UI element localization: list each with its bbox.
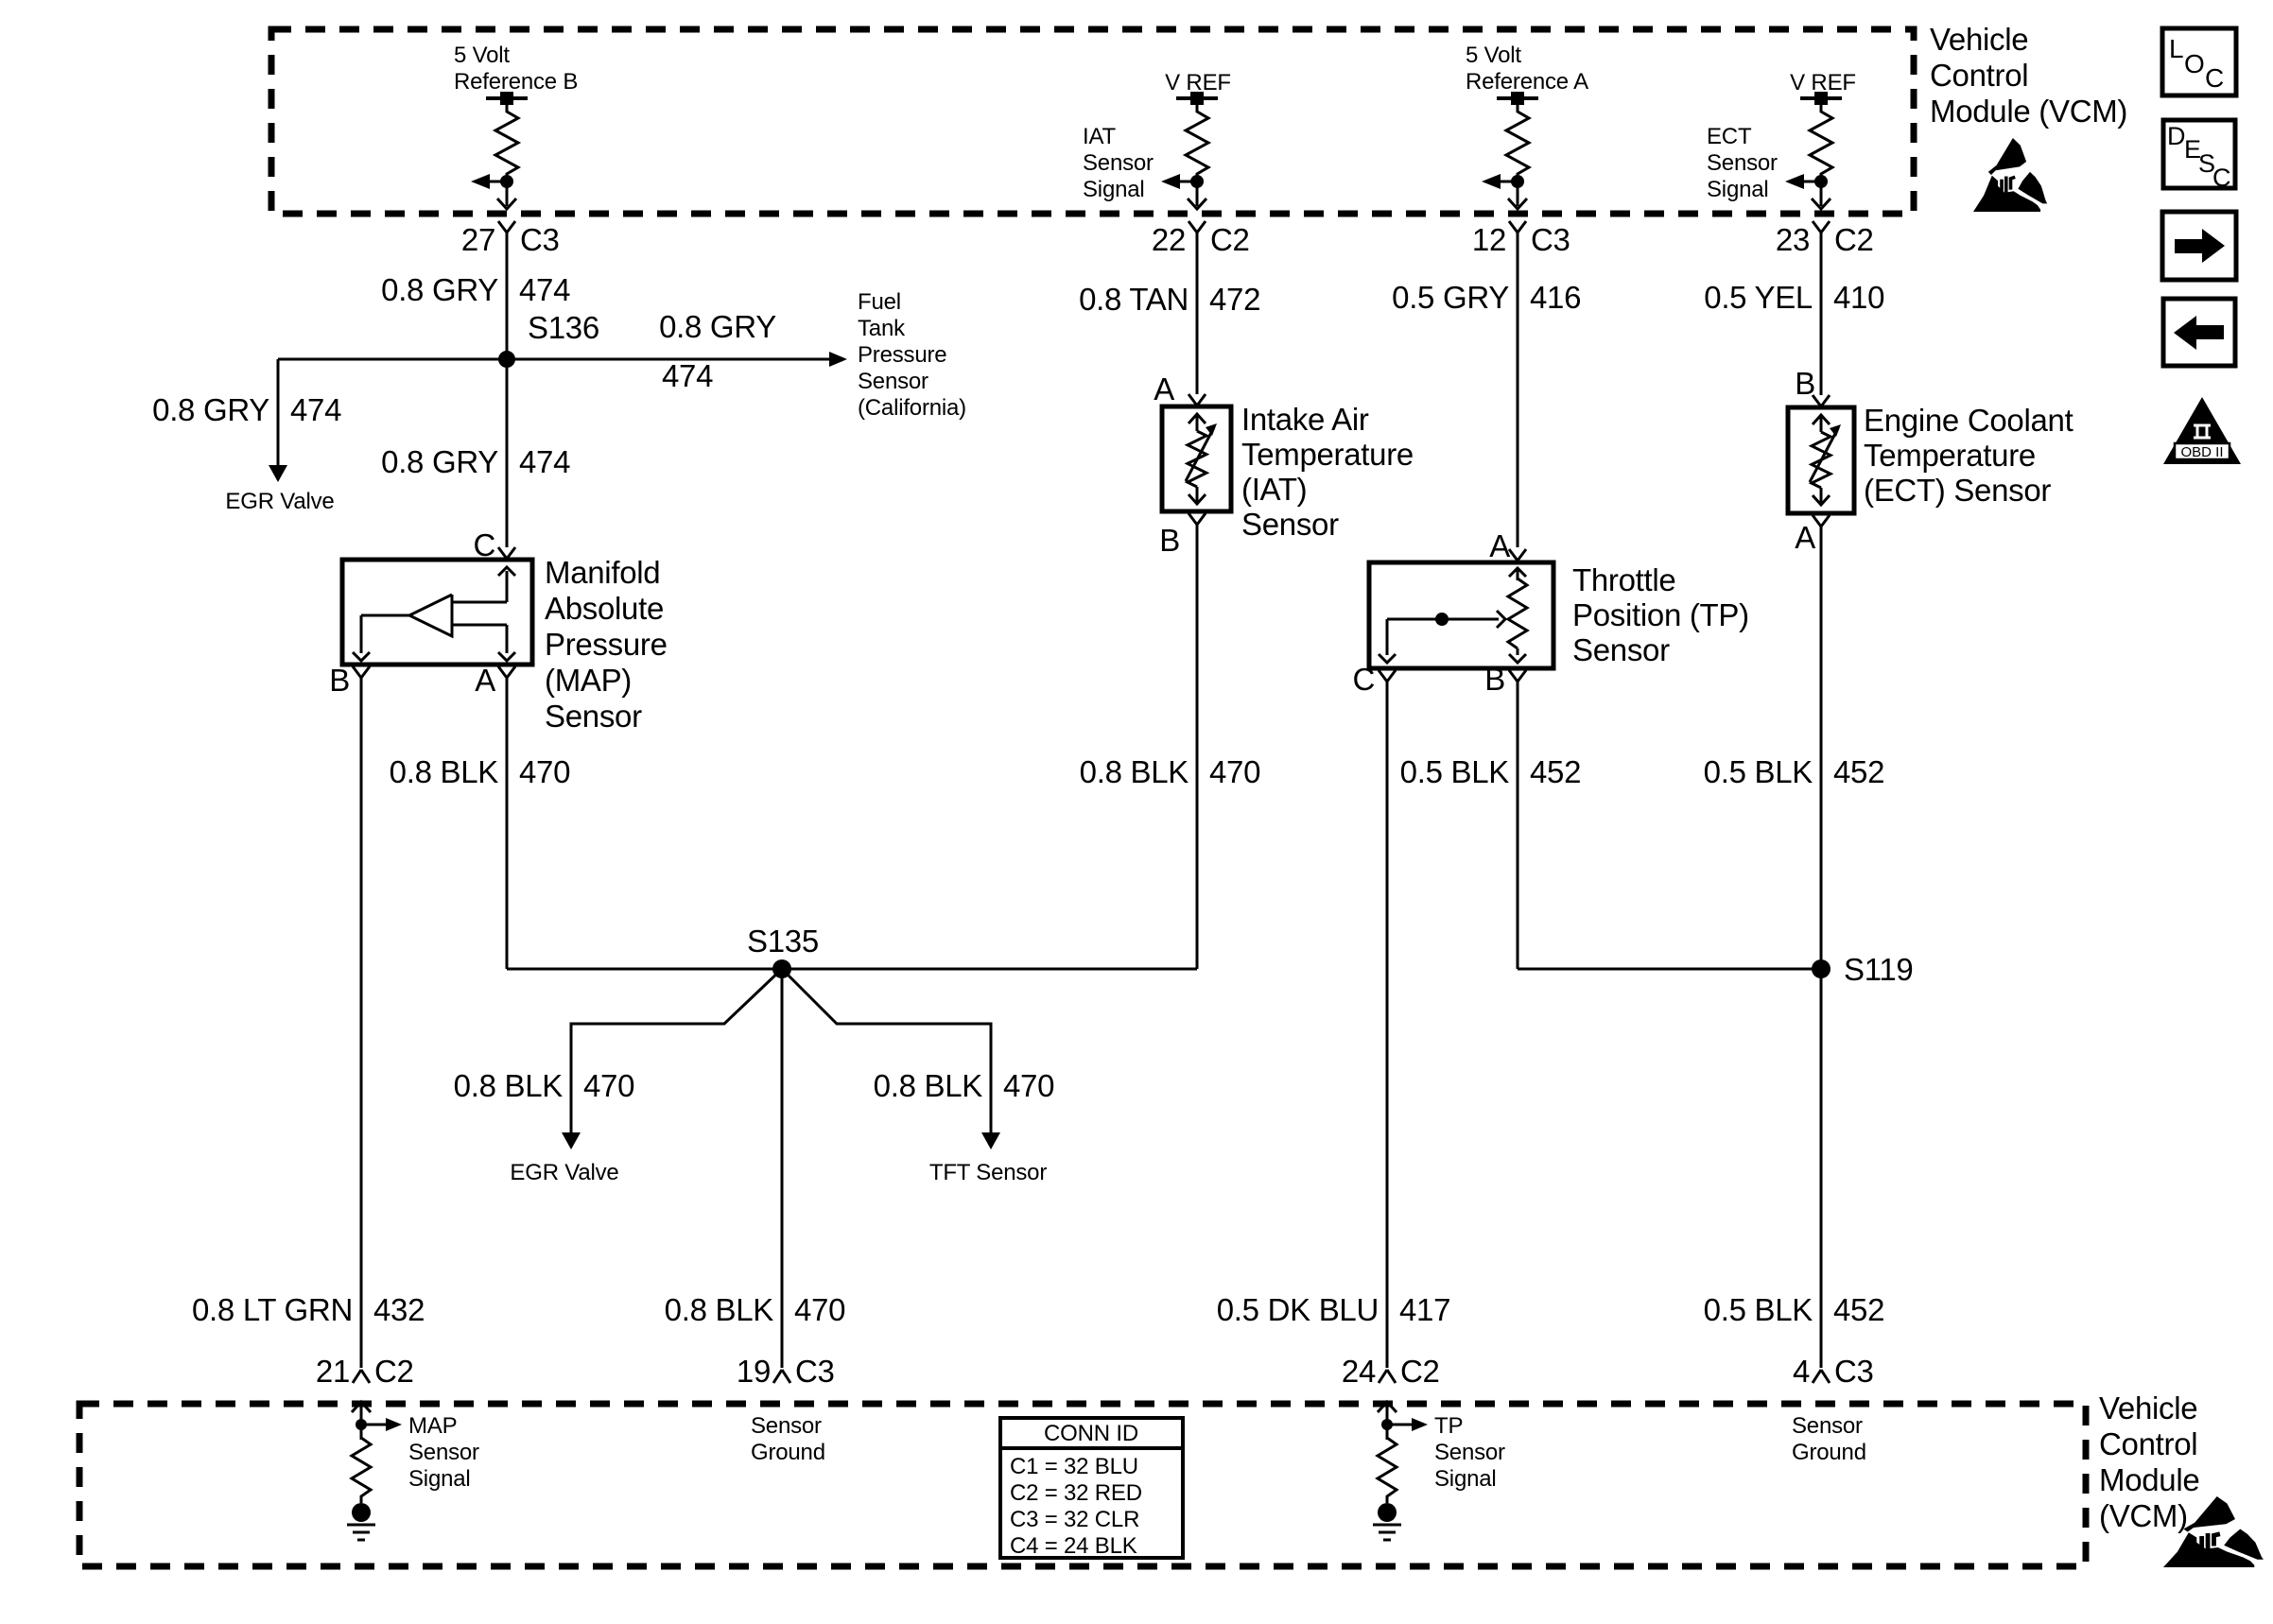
svg-text:L: L: [2169, 34, 2184, 63]
svg-text:Vehicle: Vehicle: [1930, 22, 2028, 57]
resistor IAT V REF pull-up: [1161, 92, 1218, 209]
wire S135 branch EGR: [571, 969, 782, 1132]
label 5 Volt Reference A: [1466, 43, 1588, 95]
CONN ID table: [1000, 1418, 1183, 1559]
label EGR Valve bottom: [510, 1160, 618, 1185]
connector pin 27 C3: [461, 221, 560, 257]
svg-text:V REF: V REF: [1790, 70, 1856, 95]
connector pin 24 C2: [1342, 1354, 1440, 1389]
svg-text:Fuel: Fuel: [858, 289, 901, 315]
svg-text:474: 474: [519, 272, 570, 307]
wire ECT down: [1820, 527, 1823, 1368]
label V REF ECT: [1790, 70, 1856, 95]
wire MAP B down: [360, 678, 363, 1368]
label Sensor Ground left: [751, 1413, 825, 1465]
svg-text:0.5 BLK: 0.5 BLK: [1704, 754, 1813, 789]
junction S136: [498, 310, 599, 368]
label TFT Sensor: [929, 1160, 1047, 1185]
ECT sensor box: [1788, 407, 1854, 513]
svg-text:C3 = 32 CLR: C3 = 32 CLR: [1010, 1507, 1139, 1532]
svg-text:0.8 BLK: 0.8 BLK: [874, 1068, 983, 1103]
label IAT Sensor Signal: [1083, 124, 1154, 202]
label wire 0.8 LT GRN 432: [192, 1292, 425, 1327]
svg-text:416: 416: [1530, 280, 1581, 315]
svg-text:0.5 YEL: 0.5 YEL: [1704, 280, 1813, 315]
svg-text:0.8 LT GRN: 0.8 LT GRN: [192, 1292, 353, 1327]
svg-text:417: 417: [1399, 1292, 1450, 1327]
svg-text:C3: C3: [1531, 222, 1570, 257]
label wire 0.8 BLK 470 (IAT B): [1080, 754, 1261, 789]
svg-text:Sensor: Sensor: [1792, 1413, 1863, 1439]
label wire 0.5 YEL 410: [1704, 280, 1884, 315]
wire TP C down: [1386, 682, 1389, 1368]
wire S136 horizontal left: [278, 358, 507, 361]
svg-text:C: C: [1352, 662, 1375, 697]
label Sensor Ground right: [1792, 1413, 1866, 1465]
connector MAP pin C: [473, 527, 515, 562]
junction S119: [1812, 952, 1913, 987]
resistor 5V Reference B pull-up: [471, 92, 528, 209]
svg-text:Sensor: Sensor: [1241, 507, 1339, 542]
svg-text:C: C: [473, 527, 495, 562]
svg-text:24: 24: [1342, 1354, 1376, 1389]
svg-text:C: C: [2205, 63, 2224, 93]
svg-text:Signal: Signal: [1434, 1466, 1497, 1492]
TP sensor box: [1369, 562, 1553, 668]
svg-text:S135: S135: [747, 924, 819, 959]
wire TP B down: [1517, 682, 1519, 969]
svg-text:0.8 BLK: 0.8 BLK: [454, 1068, 564, 1103]
label 5 Volt Reference B: [454, 43, 578, 95]
svg-text:TP: TP: [1434, 1413, 1463, 1439]
arrow to EGR Valve bottom: [562, 1132, 581, 1149]
connector ECT pin A: [1795, 515, 1830, 555]
svg-text:ECT: ECT: [1707, 124, 1752, 149]
svg-text:410: 410: [1833, 280, 1884, 315]
wire 416 vertical: [1517, 232, 1519, 547]
svg-text:23: 23: [1776, 222, 1810, 257]
label wire 0.8 GRY (fuel): [659, 309, 776, 344]
svg-text:Sensor: Sensor: [1434, 1440, 1505, 1465]
svg-text:(VCM): (VCM): [2099, 1498, 2188, 1533]
svg-text:Module (VCM): Module (VCM): [1930, 94, 2127, 129]
svg-text:C2: C2: [1210, 222, 1250, 257]
connector TP pin A: [1489, 528, 1526, 563]
svg-text:D: D: [2167, 122, 2186, 150]
connector pin 23 C2: [1776, 221, 1874, 257]
svg-text:Engine Coolant: Engine Coolant: [1864, 403, 2073, 438]
svg-text:0.8 BLK: 0.8 BLK: [1080, 754, 1189, 789]
connector IAT pin A: [1154, 371, 1206, 406]
svg-text:19: 19: [737, 1354, 771, 1389]
label ECT Sensor Signal: [1707, 124, 1778, 202]
VCM top label: [1930, 22, 2127, 129]
svg-text:Tank: Tank: [858, 316, 906, 341]
svg-text:B: B: [1795, 366, 1815, 401]
label TP sensor: [1572, 562, 1749, 667]
svg-text:Sensor: Sensor: [1083, 150, 1154, 176]
MAP sensor box: [342, 560, 532, 665]
arrow to TFT Sensor: [981, 1132, 1000, 1149]
label Fuel Tank Pressure Sensor: [858, 289, 966, 421]
svg-text:Absolute: Absolute: [545, 591, 664, 626]
connector pin 4 C3: [1793, 1354, 1874, 1389]
icon arrow right: [2162, 212, 2236, 280]
svg-text:Ground: Ground: [1792, 1440, 1866, 1465]
connector IAT pin B: [1159, 513, 1206, 558]
label wire 0.8 GRY 474 (pin 27): [381, 272, 570, 307]
svg-text:0.8 BLK: 0.8 BLK: [390, 754, 499, 789]
svg-text:5 Volt: 5 Volt: [454, 43, 510, 68]
wire 472 vertical: [1196, 232, 1199, 394]
MAP sensor signal input: [347, 1402, 402, 1540]
svg-text:IAT: IAT: [1083, 124, 1116, 149]
svg-text:Throttle: Throttle: [1572, 562, 1675, 597]
label IAT sensor: [1241, 402, 1414, 542]
label wire 0.8 BLK 470 (EGR): [454, 1068, 635, 1103]
svg-text:MAP: MAP: [408, 1413, 457, 1439]
svg-text:C1 = 32 BLU: C1 = 32 BLU: [1010, 1454, 1138, 1479]
ESD symbol top: [1973, 138, 2047, 212]
svg-text:C3: C3: [520, 222, 560, 257]
label wire 0.8 TAN 472: [1079, 282, 1260, 317]
label wire 0.5 DK BLU 417: [1217, 1292, 1450, 1327]
svg-text:C4 = 24 BLK: C4 = 24 BLK: [1010, 1533, 1137, 1559]
svg-text:OBD II: OBD II: [2180, 444, 2223, 460]
connector pin 22 C2: [1152, 221, 1250, 257]
label EGR Valve top: [225, 489, 334, 514]
connector TP pin C: [1352, 662, 1396, 697]
svg-text:B: B: [329, 663, 350, 698]
svg-text:Control: Control: [2099, 1426, 2197, 1461]
svg-text:Signal: Signal: [1707, 177, 1769, 202]
svg-text:470: 470: [1209, 754, 1260, 789]
svg-text:12: 12: [1472, 222, 1506, 257]
svg-text:Pressure: Pressure: [858, 342, 946, 368]
svg-text:0.5 BLK: 0.5 BLK: [1400, 754, 1510, 789]
label MAP Sensor Signal: [408, 1413, 479, 1492]
svg-text:Intake Air: Intake Air: [1241, 402, 1369, 437]
svg-text:A: A: [475, 663, 495, 698]
svg-text:Reference A: Reference A: [1466, 69, 1588, 95]
VCM bottom dashed box: [79, 1404, 2086, 1566]
svg-text:C2: C2: [1834, 222, 1874, 257]
svg-text:S136: S136: [528, 310, 599, 345]
svg-text:V REF: V REF: [1165, 70, 1231, 95]
svg-text:472: 472: [1209, 282, 1260, 317]
resistor ECT V REF pull-up: [1785, 92, 1842, 209]
wire IAT B to bus: [1196, 525, 1199, 969]
svg-text:C2 = 32 RED: C2 = 32 RED: [1010, 1480, 1142, 1506]
connector MAP pin B: [329, 663, 370, 698]
svg-text:CONN ID: CONN ID: [1044, 1421, 1138, 1446]
svg-text:21: 21: [316, 1354, 350, 1389]
svg-text:EGR Valve: EGR Valve: [225, 489, 334, 514]
wire S119 horizontal: [1518, 968, 1821, 971]
svg-text:Reference B: Reference B: [454, 69, 578, 95]
label ECT sensor: [1864, 403, 2073, 508]
svg-text:Control: Control: [1930, 58, 2028, 93]
svg-text:Sensor: Sensor: [545, 699, 642, 734]
label wire 0.5 GRY 416: [1392, 280, 1581, 315]
TP potentiometer: [1379, 568, 1527, 663]
svg-text:470: 470: [519, 754, 570, 789]
svg-text:432: 432: [373, 1292, 425, 1327]
svg-text:(California): (California): [858, 395, 966, 421]
label wire 0.8 BLK 470 (TFT): [874, 1068, 1055, 1103]
svg-text:0.8 GRY: 0.8 GRY: [381, 444, 498, 479]
VCM bottom label: [2099, 1391, 2199, 1533]
svg-text:A: A: [1154, 371, 1174, 406]
wire ground bus horizontal: [507, 968, 1197, 971]
svg-text:Module: Module: [2099, 1462, 2199, 1497]
svg-text:(MAP): (MAP): [545, 663, 632, 698]
svg-text:0.8 GRY: 0.8 GRY: [659, 309, 776, 344]
connector pin 12 C3: [1472, 221, 1570, 257]
label wire 0.8 GRY 474 (MAP C): [381, 444, 570, 479]
arrow to Fuel Tank Pressure Sensor: [829, 352, 847, 367]
svg-text:474: 474: [662, 358, 713, 393]
connector MAP pin A: [475, 663, 515, 698]
svg-text:O: O: [2184, 49, 2205, 78]
svg-text:0.5 DK BLU: 0.5 DK BLU: [1217, 1292, 1379, 1327]
svg-text:0.5 BLK: 0.5 BLK: [1704, 1292, 1813, 1327]
svg-text:0.8 TAN: 0.8 TAN: [1079, 282, 1189, 317]
svg-text:0.5 GRY: 0.5 GRY: [1392, 280, 1509, 315]
svg-text:S119: S119: [1844, 952, 1913, 987]
svg-text:22: 22: [1152, 222, 1186, 257]
svg-text:Sensor: Sensor: [751, 1413, 822, 1439]
svg-text:4: 4: [1793, 1354, 1810, 1389]
wire S136 to fuel tank sensor: [507, 358, 829, 361]
svg-text:470: 470: [1003, 1068, 1054, 1103]
icon DESC: [2163, 120, 2235, 192]
svg-text:Position (TP): Position (TP): [1572, 597, 1749, 632]
svg-text:Signal: Signal: [1083, 177, 1145, 202]
svg-text:C3: C3: [795, 1354, 835, 1389]
svg-text:Sensor: Sensor: [1707, 150, 1778, 176]
wire EGR branch vertical: [277, 359, 280, 465]
svg-text:452: 452: [1833, 754, 1884, 789]
IAT sensor box: [1162, 406, 1231, 511]
svg-text:Temperature: Temperature: [1241, 437, 1414, 472]
IAT thermistor: [1186, 414, 1217, 504]
svg-text:Sensor: Sensor: [408, 1440, 479, 1465]
label wire 0.8 GRY 474 (EGR): [152, 392, 341, 427]
icon arrow left: [2163, 299, 2235, 366]
ESD symbol bottom: [2163, 1496, 2264, 1567]
svg-text:470: 470: [583, 1068, 634, 1103]
icon LOC: [2162, 28, 2236, 95]
connector ECT pin B: [1795, 366, 1830, 406]
svg-text:Ground: Ground: [751, 1440, 825, 1465]
TP sensor signal input: [1373, 1402, 1428, 1540]
wire MAP A to bus: [506, 678, 509, 969]
label wire 0.5 BLK 452 (S119 down): [1704, 1292, 1885, 1327]
label TP Sensor Signal: [1434, 1413, 1505, 1492]
ECT thermistor: [1810, 415, 1841, 505]
svg-text:TFT Sensor: TFT Sensor: [929, 1160, 1047, 1185]
MAP internal amplifier: [353, 567, 515, 661]
label MAP sensor: [545, 555, 668, 734]
label wire 0.5 BLK 452 (ECT): [1704, 754, 1885, 789]
svg-text:474: 474: [519, 444, 570, 479]
svg-text:B: B: [1484, 662, 1505, 697]
label wire 0.5 BLK 452 (TP B): [1400, 754, 1582, 789]
svg-text:474: 474: [290, 392, 341, 427]
svg-text:A: A: [1489, 528, 1510, 563]
svg-text:(ECT) Sensor: (ECT) Sensor: [1864, 473, 2051, 508]
svg-text:C3: C3: [1834, 1354, 1874, 1389]
connector TP pin B: [1484, 662, 1526, 697]
svg-text:5 Volt: 5 Volt: [1466, 43, 1521, 68]
svg-text:C2: C2: [1400, 1354, 1440, 1389]
svg-text:Manifold: Manifold: [545, 555, 660, 590]
svg-text:B: B: [1159, 523, 1180, 558]
connector pin 19 C3: [737, 1354, 835, 1389]
svg-text:Vehicle: Vehicle: [2099, 1391, 2197, 1425]
svg-text:27: 27: [461, 222, 495, 257]
svg-text:A: A: [1795, 520, 1815, 555]
svg-text:Sensor: Sensor: [858, 369, 928, 394]
svg-text:0.8 GRY: 0.8 GRY: [152, 392, 269, 427]
svg-text:452: 452: [1833, 1292, 1884, 1327]
junction S135: [747, 924, 819, 978]
svg-text:0.8 BLK: 0.8 BLK: [665, 1292, 774, 1327]
svg-text:Pressure: Pressure: [545, 627, 668, 662]
wire S135 branch TFT: [782, 969, 991, 1132]
svg-text:452: 452: [1530, 754, 1581, 789]
wire 474 vertical: [506, 232, 509, 547]
label wire 0.8 BLK 470 (S135 down): [665, 1292, 846, 1327]
wire S135 down: [781, 969, 784, 1368]
label V REF IAT: [1165, 70, 1231, 95]
svg-text:470: 470: [794, 1292, 845, 1327]
svg-text:Signal: Signal: [408, 1466, 471, 1492]
wire 410 vertical: [1820, 232, 1823, 395]
VCM top dashed box: [271, 29, 1914, 214]
svg-text:C: C: [2212, 164, 2231, 192]
label wire 0.8 BLK 470 (MAP A): [390, 754, 571, 789]
icon OBD II: [2163, 397, 2241, 464]
label wire 474 (fuel): [662, 358, 713, 393]
connector pin 21 C2: [316, 1354, 414, 1389]
svg-text:EGR Valve: EGR Valve: [510, 1160, 618, 1185]
arrow to EGR Valve: [269, 465, 287, 482]
svg-text:0.8 GRY: 0.8 GRY: [381, 272, 498, 307]
svg-text:Temperature: Temperature: [1864, 438, 2036, 473]
svg-text:C2: C2: [374, 1354, 414, 1389]
svg-text:Sensor: Sensor: [1572, 632, 1670, 667]
resistor 5V Reference A pull-up: [1482, 92, 1538, 209]
svg-text:(IAT): (IAT): [1241, 472, 1307, 507]
